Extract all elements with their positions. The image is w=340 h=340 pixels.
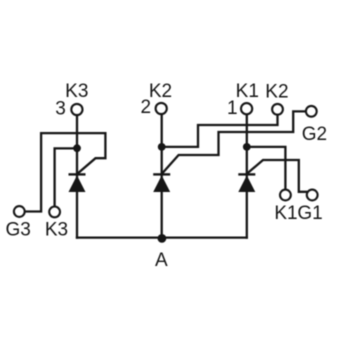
node dot T2 cathode <box>158 143 166 151</box>
svg-text:G3: G3 <box>6 220 31 241</box>
node dot T3 cathode <box>73 144 81 152</box>
terminal K2 auxiliary <box>272 104 283 115</box>
wire: main vertical thyristor T3 <box>76 115 78 237</box>
svg-text:K2: K2 <box>265 82 288 103</box>
thyristor T3 triangle <box>69 175 86 192</box>
wire: common anode bus A <box>77 236 247 238</box>
wire: gate G3 path <box>25 133 105 211</box>
wire: auxiliary cathode K3 path <box>55 148 77 206</box>
wire: auxiliary cathode K2 path <box>162 115 278 147</box>
terminal 3 / K3 main <box>71 104 82 115</box>
terminal 1 / K1 main <box>241 103 252 114</box>
terminal K1 auxiliary <box>280 190 291 201</box>
svg-text:G2: G2 <box>302 124 327 145</box>
terminal 2 / K2 main <box>156 103 167 114</box>
svg-text:K3: K3 <box>45 220 68 241</box>
svg-text:3: 3 <box>55 98 66 119</box>
wire: main vertical thyristor T2 <box>161 114 163 237</box>
wire: main vertical thyristor T1 <box>246 114 248 237</box>
svg-text:K1: K1 <box>274 203 297 224</box>
thyristor T2 triangle <box>153 175 170 192</box>
terminal G1 <box>307 190 318 201</box>
node dot A bus <box>158 234 167 243</box>
svg-text:K3: K3 <box>65 81 88 102</box>
wire: gate G2 path <box>162 111 306 173</box>
svg-text:K1: K1 <box>236 81 259 102</box>
terminal K3 auxiliary <box>49 207 60 218</box>
svg-text:G1: G1 <box>297 203 322 224</box>
thyristor T2 cathode bar <box>153 173 170 175</box>
svg-text:2: 2 <box>141 97 152 118</box>
wire: auxiliary cathode K1 path <box>247 147 286 190</box>
svg-text:A: A <box>155 250 168 271</box>
thyristor T1 cathode bar <box>238 173 255 175</box>
terminal G3 <box>14 206 25 217</box>
terminal G2 <box>306 106 317 117</box>
thyristor T1 triangle <box>238 175 255 192</box>
svg-text:1: 1 <box>227 98 238 119</box>
thyristor T3 cathode bar <box>69 173 86 175</box>
svg-text:K2: K2 <box>149 81 172 102</box>
wire: gate G1 path <box>247 160 308 192</box>
node dot T1 cathode <box>243 143 251 151</box>
